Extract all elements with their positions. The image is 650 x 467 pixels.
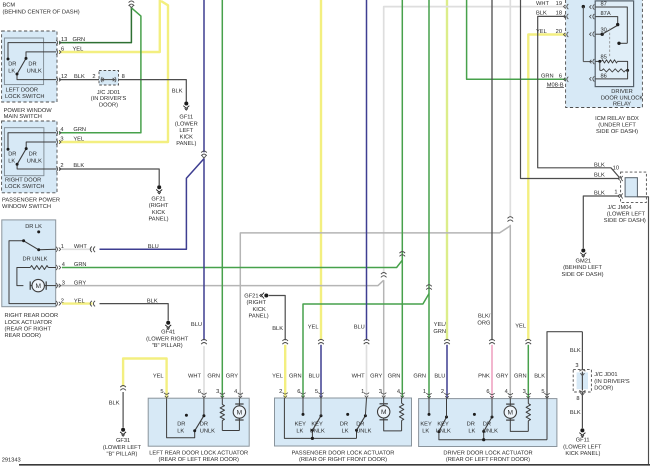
svg-text:1: 1 [614,190,617,196]
svg-text:DOOR UNLOCK: DOOR UNLOCK [601,95,644,101]
wire BLK J/C JD01 bottom to ground GF11-2 [581,392,583,428]
svg-text:SIDE OF DASH): SIDE OF DASH) [561,271,603,278]
svg-text:GRN: GRN [413,373,426,379]
svg-text:(IN DRIVER'S: (IN DRIVER'S [594,378,630,385]
left rear actuator motor M2 [238,398,240,403]
wire BLK relay pin18 to J/C JM04 pin10 [538,16,620,177]
wire GRY right rear pin3 stub [56,285,62,287]
left door lock switch inner box [4,38,43,85]
junction connector J/C JD01 top dashed box [99,71,119,86]
svg-text:WHT: WHT [352,373,365,379]
passenger power window switch dashed box [2,121,57,193]
svg-text:BLK: BLK [570,348,581,354]
wire BLK J/C JD01 pin8 to ground GF11 [119,80,187,102]
inline connector BLU/WHT left rear pin6 [201,339,207,341]
svg-text:PASSENGER POWER: PASSENGER POWER [2,198,60,204]
wire GRY below connector to passenger pin3 [383,280,385,398]
svg-text:KEY: KEY [437,421,449,427]
svg-text:PANEL): PANEL) [249,312,269,319]
svg-text:YEL: YEL [73,137,84,143]
svg-text:4: 4 [60,127,63,133]
svg-text:LOCK SWITCH: LOCK SWITCH [5,94,45,100]
pin connector passenger pin2 [283,393,288,395]
left rear door lock actuator box [148,398,249,446]
svg-text:LEFT REAR DOOR LOCK ACTUATOR: LEFT REAR DOOR LOCK ACTUATOR [149,451,248,457]
wire YEL right rear actuator pin2 [62,302,93,304]
passenger actuator door switch [346,413,349,416]
svg-text:87A: 87A [601,11,611,17]
svg-text:DR: DR [356,421,364,427]
wire GRN top edge through connector to passenger pin4 [401,0,403,398]
svg-text:10: 10 [613,166,619,172]
wire PNK driver pin6 below connector [491,345,493,399]
ground GM21 [581,249,585,253]
driver actuator resistor R4 [527,399,529,404]
svg-text:19: 19 [556,1,562,7]
wire YEL branch to right door lock switch pin3 [59,1,168,142]
svg-text:2: 2 [279,389,282,395]
svg-text:M: M [35,283,41,290]
svg-text:PNK: PNK [478,373,490,379]
svg-text:GRY: GRY [370,373,382,379]
svg-text:WHT: WHT [188,373,201,379]
svg-text:4: 4 [62,262,65,268]
svg-text:KICK: KICK [253,307,266,313]
svg-text:LK: LK [8,159,15,165]
J/C JD01 bottom pin 3 connector [579,370,585,372]
ground GF11 lower [580,428,584,432]
wire BLK through J/C JD01 bottom [581,372,583,391]
inline connector BLU/WHT passenger pin1 [364,339,370,341]
wire GRN branch to right door lock switch pin4 [59,8,141,133]
inline connector YEL-GRN/BLU driver pin2 [444,339,450,341]
svg-text:1: 1 [423,389,426,395]
svg-text:UNLK: UNLK [436,428,451,434]
wire BLK BCM pin12 to J/C JD01 [59,79,99,81]
svg-text:BLK: BLK [147,298,158,304]
svg-text:GM21: GM21 [576,258,592,264]
svg-text:GRN: GRN [73,37,86,43]
wire GRN right rear pin4 row [62,260,402,267]
wire BLK right rear pin2 to ground GF41 [100,304,169,321]
svg-text:BLK: BLK [272,326,283,332]
relay contact 87A [595,17,617,24]
svg-text:BLU: BLU [148,244,159,250]
svg-text:GRY: GRY [226,373,238,379]
ground GF21 upper [157,185,161,189]
svg-text:BLU: BLU [434,373,445,379]
svg-text:DR: DR [29,152,37,158]
svg-text:12: 12 [61,74,67,80]
relay internal dashed divider [609,29,611,58]
svg-text:UNLK: UNLK [310,428,325,434]
svg-text:86: 86 [601,73,607,79]
svg-text:5: 5 [315,389,318,395]
svg-text:GF31: GF31 [116,438,130,444]
svg-text:DR: DR [8,152,16,158]
wire WHT left rear actuator pin6 [203,346,205,398]
svg-text:POWER WINDOW: POWER WINDOW [4,108,53,114]
wire WHT relay pin19 row [384,7,566,274]
svg-text:BLK: BLK [74,74,85,80]
wire YEL GF31 to left rear actuator pin5 [123,359,167,399]
svg-text:YEL: YEL [153,373,164,379]
svg-text:DR: DR [483,421,491,427]
svg-text:GRN: GRN [433,329,446,335]
svg-text:LK: LK [177,428,184,434]
svg-text:J/C JM04: J/C JM04 [608,204,632,211]
svg-text:YEL: YEL [536,29,547,35]
svg-text:GRN: GRN [207,373,220,379]
diagram bottom border [19,464,650,466]
pin connector passenger pin4 [400,393,405,395]
svg-text:(REAR OF RIGHT: (REAR OF RIGHT [5,325,52,332]
svg-text:MAIN SWITCH: MAIN SWITCH [4,114,42,120]
svg-text:87: 87 [601,1,607,7]
svg-text:(BEHIND CENTER OF DASH): (BEHIND CENTER OF DASH) [3,8,80,15]
pin connector driver pin4 [508,393,513,395]
svg-text:PANEL): PANEL) [176,140,196,147]
passenger actuator resistor R3 [401,398,403,403]
svg-text:8: 8 [122,74,125,80]
svg-text:YEL: YEL [272,373,283,379]
svg-text:GRY: GRY [74,280,86,286]
svg-text:GF21: GF21 [244,293,258,299]
svg-text:8: 8 [576,396,579,402]
svg-text:LEFT DOOR: LEFT DOOR [6,87,38,93]
svg-text:DR: DR [340,421,348,427]
pin connector passenger pin3 [381,393,386,395]
connector on BLU wire node [201,151,207,153]
svg-text:GF11: GF11 [576,438,590,444]
svg-text:BLK: BLK [172,89,183,95]
svg-text:DOOR): DOOR) [594,384,613,391]
driver actuator door switch [473,413,476,416]
wire BLU branch to right rear pin1 [100,159,205,250]
svg-text:(LOWER LEFT: (LOWER LEFT [607,211,646,218]
power window main switch dashed box [2,31,57,102]
wire GRN top edge to left rear pin3 [221,0,223,398]
svg-text:UNLK: UNLK [27,68,42,74]
svg-text:GRN: GRN [514,373,527,379]
svg-text:DR LK: DR LK [25,224,42,230]
svg-text:13: 13 [61,37,67,43]
pin connector driver pin1 [426,393,431,395]
right door lock switch S2 internals [8,133,56,149]
svg-text:4: 4 [505,389,508,395]
passenger actuator motor M3 [383,398,385,403]
svg-text:6: 6 [297,389,300,395]
svg-text:6: 6 [61,46,64,52]
svg-text:RELAY: RELAY [613,101,631,107]
relay common 30 and arm [595,33,602,35]
driver door unlock relay box U1 [595,1,633,87]
svg-text:DR: DR [28,61,36,67]
ICM relay box dashed outline [566,0,643,108]
wire BLK relay 87-85 link [582,5,585,8]
pin connector driver pin6 [489,393,494,395]
svg-text:PASSENGER DOOR LOCK ACTUATOR: PASSENGER DOOR LOCK ACTUATOR [292,451,395,457]
right door lock switch pin 3 connector [56,139,58,144]
relay pin connectors [593,4,595,9]
driver actuator motor M4 [509,399,511,404]
svg-text:85: 85 [601,55,607,61]
wire BLU top edge to passenger pin1 connector [366,0,368,340]
left rear actuator resistor R2 [221,398,223,404]
svg-text:"B" PILLAR): "B" PILLAR) [152,342,183,349]
svg-text:KICK: KICK [180,135,193,141]
svg-text:BLU: BLU [191,322,202,328]
svg-text:5: 5 [541,389,544,395]
svg-text:UNLK: UNLK [356,428,371,434]
inline connector YEL/BLU passenger pin5 [318,339,324,341]
wire WHT passenger actuator pin1 [366,345,368,398]
pin connector left rear pin4 [238,393,243,395]
svg-text:(LOWER RIGHT: (LOWER RIGHT [146,335,189,342]
svg-text:291343: 291343 [2,458,21,464]
wire BLK ground GF21-2 to passenger pin2 connector [269,296,286,341]
wire YEL passenger pin2 below connector [284,345,286,398]
svg-text:LEFT: LEFT [179,128,193,134]
svg-text:BLK: BLK [594,190,605,196]
pin connector left rear pin5 [164,393,169,395]
svg-text:1: 1 [61,244,64,250]
connector WHT/GRY wire at y218 [508,217,514,219]
svg-text:BLK: BLK [570,410,581,416]
svg-text:2: 2 [61,298,64,304]
svg-text:BLK/: BLK/ [478,313,491,320]
ground GF41 [166,321,170,325]
svg-text:BLU: BLU [309,373,320,379]
svg-text:M: M [237,409,243,416]
pin connector driver pin3 [526,393,531,395]
svg-text:YEL: YEL [308,324,319,330]
right rear actuator pin 4 connector [56,265,58,270]
svg-text:LK: LK [468,428,475,434]
right rear actuator pin 1 connector [56,247,58,252]
left door lock switch S1 internals [8,43,56,59]
connector at top of GRN BCM wire [129,1,135,3]
svg-text:DR: DR [467,421,475,427]
BCM pin 12 connector [56,77,58,82]
J/C JM04 pin 1 connector [621,193,623,198]
svg-text:GRN: GRN [388,373,401,379]
svg-text:UNLK: UNLK [27,159,42,165]
wire GRN top edge to driver pin1 [428,0,430,399]
left rear actuator switch and DR LK contact [185,414,188,417]
right door lock switch inner box [4,128,44,176]
wire YEL top edge to passenger pin5 connector [320,0,322,340]
svg-text:LK: LK [422,428,429,434]
pin connector left rear pin6 [201,393,206,395]
svg-text:YEL: YEL [515,323,526,329]
svg-text:18: 18 [556,11,562,17]
svg-text:UNLK: UNLK [483,428,498,434]
right rear actuator motor M1 [29,281,31,289]
svg-text:ORG: ORG [477,320,490,326]
svg-text:DR: DR [200,421,208,427]
junction connector J/C JM04 dashed box [621,172,647,202]
svg-text:4: 4 [397,389,400,395]
wire GRN driver pin3 below connector [527,345,529,399]
connector GRN wire at y286 [426,285,432,287]
svg-text:(BEHIND LEFT: (BEHIND LEFT [563,264,602,271]
svg-text:BLK: BLK [594,173,605,179]
pin connector passenger pin5 [318,393,323,395]
wire BLK driver pin5 to junction [547,332,582,399]
svg-text:WHT: WHT [536,1,549,7]
relay contact 87 [595,7,627,43]
svg-text:(REAR OF RIGHT FRONT DOOR): (REAR OF RIGHT FRONT DOOR) [299,456,387,463]
pin connector left rear pin3 [220,393,225,395]
connector GRN wire at y255 [400,252,406,254]
J/C JD01 top internal wire [102,79,115,81]
svg-text:GRN: GRN [289,373,302,379]
svg-text:SIDE OF DASH): SIDE OF DASH) [604,217,646,224]
svg-text:M: M [381,409,387,416]
BCM pin 6 connector [56,49,58,54]
svg-text:3: 3 [575,363,578,369]
J/C JD01 bottom pin 8 connector [579,390,585,392]
svg-text:GRN: GRN [74,262,87,268]
wire GRN branch to passenger pin6 [303,294,429,398]
svg-text:6: 6 [198,389,201,395]
wire GRY right rear pin3 row to connector [62,280,384,285]
svg-text:GRN: GRN [541,74,554,80]
inline connector BLK/YEL passenger pin2 [282,339,288,341]
ground GF31 [121,428,125,432]
svg-text:BLK: BLK [109,400,120,406]
svg-text:"B" PILLAR): "B" PILLAR) [107,451,138,458]
right door lock switch pin 2 connector [56,166,58,171]
wire BLU passenger pin5 below connector [320,345,322,398]
svg-text:3: 3 [379,389,382,395]
wire BLK junction to J/C JD01 bottom [581,332,583,370]
svg-text:3: 3 [60,137,63,143]
svg-text:KEY: KEY [311,421,323,427]
J/C JD01 top internal connectors [101,77,102,82]
right rear actuator pin 3 connector [56,283,58,288]
svg-text:KICK PANEL): KICK PANEL) [565,450,600,457]
svg-text:M: M [508,410,514,417]
inline connector WHT/BLU row1 [90,247,92,253]
wire GRN relay pin6 row [467,0,566,79]
relay ICM box edge connectors [567,4,569,9]
wire BLK J/C JM04 pin1 to ground GM21 [583,196,619,248]
wire BLK/ORG top edge to driver pin6 connector [491,0,493,340]
pin connector driver pin5 [544,393,549,395]
svg-text:ICM RELAY BOX: ICM RELAY BOX [595,116,639,122]
svg-text:RIGHT REAR DOOR: RIGHT REAR DOOR [5,313,59,319]
svg-text:20: 20 [556,29,562,35]
pin connector driver pin2 [444,393,449,395]
svg-text:J/C JD01: J/C JD01 [97,89,120,96]
svg-text:YEL/: YEL/ [434,321,447,328]
wire BLK right door lock switch pin2 to ground GF21 [59,169,159,185]
svg-text:UNLK: UNLK [200,428,215,434]
inline connector BLK-ORG/PNK driver pin6 [489,339,495,341]
svg-text:GRY: GRY [496,373,508,379]
svg-text:LK: LK [296,428,303,434]
svg-text:GRN: GRN [73,127,86,133]
svg-text:WHT: WHT [74,244,87,250]
svg-text:2: 2 [60,163,63,169]
pin connector passenger pin6 [300,393,305,395]
wire WHT top edge to driver pin4 connector [509,0,511,218]
J/C JM04 pin 10 connector [621,176,623,181]
svg-text:SIDE OF DASH): SIDE OF DASH) [596,128,638,135]
wire BLK top edge to J/C JM04 pin10 [521,0,620,179]
svg-text:RIGHT DOOR: RIGHT DOOR [5,178,41,184]
svg-text:DR: DR [8,61,16,67]
svg-text:2: 2 [441,389,444,395]
svg-text:(LOWER LEFT: (LOWER LEFT [563,443,602,450]
svg-text:BLK: BLK [534,373,545,379]
svg-text:BLK: BLK [594,163,605,169]
passenger door lock actuator box [275,398,412,446]
svg-text:30: 30 [601,27,607,33]
svg-text:YEL: YEL [73,46,84,52]
svg-text:GF41: GF41 [161,330,175,336]
svg-text:(REAR OF LEFT REAR DOOR): (REAR OF LEFT REAR DOOR) [158,456,239,463]
wire BLK J/C JM04 to right edge down [637,197,648,464]
svg-text:DOOR): DOOR) [99,102,118,109]
wire YEL BCM pin6 to top edge [59,0,160,52]
svg-text:1: 1 [361,389,364,395]
svg-text:3: 3 [523,389,526,395]
wire GRY below connector to driver pin4 [509,225,511,399]
svg-text:WINDOW SWITCH: WINDOW SWITCH [2,204,51,210]
inline connector YEL/BLK row2 [90,301,92,307]
svg-text:PANEL): PANEL) [148,215,168,222]
svg-text:YEL: YEL [74,298,85,304]
svg-text:(REAR OF LEFT FRONT DOOR): (REAR OF LEFT FRONT DOOR) [446,456,530,463]
wire YEL/GRN top edge to driver pin2 connector [446,0,448,340]
right rear actuator pin 2 connector [56,301,58,306]
svg-text:J/C JD01: J/C JD01 [594,371,617,378]
svg-text:3: 3 [216,389,219,395]
driver actuator pin5 internal [546,399,548,440]
svg-text:2: 2 [92,74,95,80]
right door lock switch pin 4 connector [56,130,58,135]
right rear door lock actuator box [2,220,56,307]
svg-text:DR: DR [177,421,185,427]
junction connector J/C JD01 bottom dashed box [573,370,591,392]
svg-text:LK: LK [342,428,349,434]
wire BLU driver pin2 below connector [446,345,448,399]
svg-text:REAR DOOR): REAR DOOR) [5,332,41,339]
svg-text:KEY: KEY [295,421,307,427]
passenger actuator key switch [284,398,356,438]
svg-text:BLK: BLK [73,163,84,169]
wire GRY branch to left rear pin4 [240,226,510,398]
svg-text:LOCK SWITCH: LOCK SWITCH [5,184,45,190]
svg-text:LOCK ACTUATOR: LOCK ACTUATOR [5,320,53,326]
svg-text:(RIGHT: (RIGHT [247,299,267,306]
svg-text:(LOWER LEFT: (LOWER LEFT [103,444,142,451]
BCM pin 13 connector [56,40,58,45]
svg-text:BLU: BLU [354,324,365,330]
wire YEL relay pin20 row [528,35,566,341]
svg-text:4: 4 [234,389,237,395]
right rear actuator resistor R1 [48,267,56,269]
svg-text:(UNDER LEFT: (UNDER LEFT [598,122,636,129]
svg-text:KEY: KEY [420,421,432,427]
ground GF21 mid [264,294,268,298]
connector GRY/WHT wire at y274 [381,273,387,275]
svg-text:LK: LK [8,68,15,74]
driver actuator key switch [428,399,430,415]
